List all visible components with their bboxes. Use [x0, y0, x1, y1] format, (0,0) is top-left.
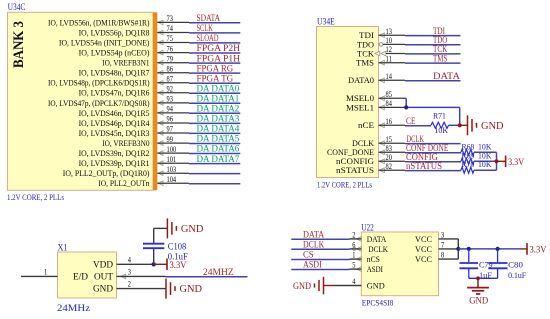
svg-text:92: 92	[167, 85, 173, 94]
wire R68 to 3.3V bus	[474, 151, 497, 153]
svg-text:83: 83	[386, 144, 392, 153]
refdes U34C	[8, 2, 26, 12]
svg-text:IO, LVDS54n (INIT_DONE): IO, LVDS54n (INIT_DONE)	[59, 38, 150, 47]
svg-text:GND: GND	[481, 121, 504, 132]
svg-text:DA DATA7: DA DATA7	[197, 154, 240, 164]
U34E pin 11 TMS	[356, 54, 405, 67]
svg-text:IO, LVDS46n, DQ1R5: IO, LVDS46n, DQ1R5	[79, 109, 150, 118]
svg-text:97: 97	[167, 125, 173, 134]
wire net CE	[405, 116, 431, 126]
wire C108 top to GND	[154, 228, 168, 243]
svg-text:ASDI: ASDI	[367, 264, 383, 274]
wire net DATA	[291, 229, 349, 239]
U34C pin 75 IO, LVDS54n (INIT_DONE)	[59, 34, 189, 47]
svg-text:84: 84	[386, 99, 393, 108]
X1 value 24MHz	[57, 303, 90, 313]
svg-text:103: 103	[167, 165, 177, 174]
wire net DCLK	[405, 134, 461, 144]
U22 pin 1 nCS	[350, 251, 380, 264]
svg-text:3: 3	[441, 231, 444, 240]
power 3.3V at X1 VDD	[154, 259, 187, 271]
wire R71 to gnd node	[449, 124, 460, 126]
svg-text:1: 1	[44, 268, 47, 277]
resistor R69 10K pullup	[461, 150, 492, 164]
ground GND at U22 pin 4	[293, 277, 334, 295]
U34E pin 83 CONF_DONE	[327, 144, 405, 157]
wire net TDI	[405, 26, 461, 36]
svg-text:nSTATUS: nSTATUS	[406, 161, 442, 171]
svg-text:U34E: U34E	[317, 16, 335, 26]
svg-text:16: 16	[386, 117, 392, 126]
svg-text:IO, LVDS39p, DQ1R1: IO, LVDS39p, DQ1R1	[79, 159, 150, 168]
wire net nSTATUS	[405, 161, 461, 171]
svg-text:FPGA RG: FPGA RG	[197, 63, 234, 73]
U34C pin 86 IO, LVDS48n, DQ1R7	[79, 64, 189, 77]
wire net DA DATA2 pin 94	[189, 104, 240, 114]
svg-text:1.2V CORE, 2 PLLs: 1.2V CORE, 2 PLLs	[317, 179, 372, 189]
U34C pin 93 IO, LVDS47p, (DPCLK7/DQS0R)	[48, 95, 189, 108]
svg-text:DA DATA0: DA DATA0	[197, 83, 240, 93]
U34C pin 99 IO, VREFB3N0	[102, 135, 189, 148]
svg-text:7: 7	[441, 241, 444, 250]
wire net DA DATA5 pin 99	[189, 134, 240, 144]
svg-text:0.1uF: 0.1uF	[508, 270, 526, 280]
U34C pin 87 IO, LVDS48p, (DPCLK6/DQS1R)	[48, 75, 189, 88]
wire R69 to 3.3V bus	[474, 160, 497, 162]
X1 pin 2 GND wire	[117, 280, 167, 289]
svg-text:10: 10	[386, 36, 392, 45]
svg-text:SLOAD: SLOAD	[197, 33, 219, 43]
wire net SLOAD pin 75	[189, 33, 240, 43]
wire net CONFIG	[405, 152, 461, 162]
BANK 3 label	[11, 21, 27, 68]
wire net TDO	[405, 35, 461, 45]
U34C pin 104 IO, PLL2_OUTn	[98, 175, 189, 188]
svg-text:73: 73	[167, 14, 173, 23]
U34C pin 103 IO, PLL2_OUTp, (DQ1R0)	[63, 165, 189, 178]
junction C79 top	[467, 247, 471, 251]
svg-text:U22: U22	[361, 222, 374, 232]
svg-text:TMS: TMS	[356, 58, 374, 68]
wire VDD node up to C108	[153, 249, 155, 264]
U34C pin 97 IO, LVDS45n, DQ1R3	[79, 125, 189, 138]
svg-text:IO, LVDS46p, DQ1R4: IO, LVDS46p, DQ1R4	[79, 119, 151, 128]
U22 pin 2 DATA	[350, 231, 387, 244]
FPGA bank part U34C	[8, 12, 158, 190]
svg-text:GND: GND	[293, 282, 311, 292]
wire net DA DATA0 pin 92	[189, 83, 240, 93]
U34E pin 10 TDO	[357, 36, 405, 49]
svg-text:nCE: nCE	[358, 120, 374, 130]
U34E pin 14 DATA0	[348, 72, 405, 85]
svg-text:C80: C80	[508, 259, 524, 269]
svg-text:IO, LVDS56p, DQ1R8: IO, LVDS56p, DQ1R8	[79, 28, 150, 37]
svg-text:IO, PLL2_OUTp, (DQ1R0): IO, PLL2_OUTp, (DQ1R0)	[63, 169, 150, 178]
junction caps gnd node	[476, 276, 480, 280]
svg-text:94: 94	[167, 105, 174, 114]
wire R70 to 3.3V bus	[474, 169, 497, 171]
svg-text:nCS: nCS	[367, 254, 380, 264]
svg-text:14: 14	[386, 72, 393, 81]
wire net SCLK pin 74	[189, 23, 240, 33]
svg-text:GND: GND	[181, 224, 204, 235]
svg-text:GND: GND	[469, 297, 488, 307]
wire net TCK	[405, 44, 461, 54]
svg-text:VCC: VCC	[415, 254, 432, 264]
svg-text:85: 85	[386, 90, 392, 99]
U22 pin 5 ASDI	[350, 261, 384, 274]
wire net 24MHZ	[166, 268, 248, 278]
wire net DA DATA6 pin 100	[189, 144, 240, 154]
svg-text:EPCS4SI8: EPCS4SI8	[362, 297, 394, 307]
svg-text:DATA0: DATA0	[348, 75, 374, 85]
svg-text:79: 79	[167, 54, 173, 63]
U22 pin 3 VCC	[415, 231, 458, 244]
U22 pin 4 GND	[334, 277, 385, 290]
svg-text:DA DATA1: DA DATA1	[197, 94, 240, 104]
svg-text:IO, PLL2_OUTn: IO, PLL2_OUTn	[98, 179, 150, 188]
svg-text:DA DATA2: DA DATA2	[197, 104, 240, 114]
U34E pin 82 nSTATUS	[336, 162, 405, 175]
svg-text:101: 101	[167, 155, 177, 164]
wire net DA DATA7 pin 101	[189, 154, 240, 164]
wire MSEL0 to MSEL1 tie	[405, 98, 460, 107]
svg-text:76: 76	[167, 44, 173, 53]
svg-text:IO, VREFB3N0: IO, VREFB3N0	[102, 139, 149, 148]
junction C80 top	[496, 247, 500, 251]
svg-text:5: 5	[352, 261, 355, 270]
power 3.3V at U22	[520, 243, 547, 255]
svg-text:10K: 10K	[478, 159, 492, 169]
U34C pin 92 IO, LVDS47n, DQ1R6	[79, 85, 189, 98]
junction X1 VDD node	[152, 262, 156, 266]
svg-text:3.3V: 3.3V	[170, 261, 187, 271]
svg-text:MSEL1: MSEL1	[346, 102, 374, 112]
svg-text:GND: GND	[180, 284, 203, 295]
power 3.3V at pullups	[497, 156, 525, 168]
svg-text:DATA: DATA	[367, 234, 387, 244]
svg-text:FPGA TG: FPGA TG	[197, 73, 234, 83]
U22 pin 8 VCC	[415, 251, 458, 264]
svg-text:DATA: DATA	[303, 229, 325, 239]
refdes X1	[58, 242, 68, 252]
svg-text:3.3V: 3.3V	[508, 158, 524, 168]
wire net unnamed pin 103	[189, 173, 240, 175]
svg-text:104: 104	[167, 175, 177, 184]
U34E pin 16 nCE	[358, 117, 405, 130]
svg-text:0.1uF: 0.1uF	[168, 251, 188, 261]
U34C note 1.2V CORE, 2 PLLs	[7, 192, 65, 202]
svg-text:2: 2	[352, 231, 355, 240]
svg-text:DATA: DATA	[433, 71, 461, 81]
X1 pin 1 E/D wire	[21, 268, 58, 277]
svg-text:DA DATA3: DA DATA3	[197, 114, 240, 124]
svg-text:100: 100	[167, 145, 177, 154]
U34C pin 76 IO, LVDS54p (nCEO)	[79, 44, 189, 57]
U34C pin 74 IO, LVDS56p, DQ1R8	[79, 24, 189, 37]
U34E pin 12 TCK	[357, 45, 405, 58]
wire net FPGA RG pin 86	[189, 63, 240, 73]
svg-text:3.3V: 3.3V	[530, 245, 547, 255]
wire net ASDI	[291, 260, 349, 270]
svg-text:DA DATA4: DA DATA4	[197, 124, 240, 134]
svg-text:11: 11	[386, 54, 392, 63]
wire net DA DATA3 pin 96	[189, 114, 240, 124]
svg-text:DCLK: DCLK	[303, 239, 325, 249]
wire net SDATA pin 73	[189, 13, 240, 23]
wire net FPGA P2H pin 76	[189, 43, 241, 53]
svg-text:SDATA: SDATA	[197, 13, 221, 23]
wire net DA DATA1 pin 93	[189, 94, 240, 104]
svg-text:E/D: E/D	[73, 271, 89, 281]
U34E pin 20 nCONFIG	[336, 153, 405, 166]
wire caps bottom tie	[469, 277, 498, 279]
junction MSEL node	[404, 105, 408, 109]
svg-text:24MHz: 24MHz	[57, 303, 90, 313]
svg-text:X1: X1	[58, 242, 68, 252]
svg-text:OUT: OUT	[94, 271, 114, 281]
svg-text:R70: R70	[462, 159, 475, 169]
refdes U22	[361, 222, 374, 232]
X1 pin 3 OUT wire	[117, 268, 166, 279]
svg-text:GND: GND	[93, 284, 114, 294]
svg-text:8: 8	[441, 251, 444, 260]
svg-text:VCC: VCC	[415, 244, 432, 254]
wire VCC rail to 3.3V	[458, 248, 520, 250]
svg-text:ASDI: ASDI	[303, 260, 322, 270]
svg-text:24MHZ: 24MHZ	[203, 268, 234, 278]
wire net FPGA P1H pin 79	[189, 53, 241, 63]
ground earth GND below caps	[467, 278, 489, 306]
svg-text:IO, LVDS47n, DQ1R6: IO, LVDS47n, DQ1R6	[79, 89, 150, 98]
capacitor C108 0.1uF	[143, 242, 188, 262]
svg-text:DCLK: DCLK	[368, 244, 388, 254]
U34E pin 13 TDI	[359, 27, 405, 40]
junction CE/R71/GND node	[458, 123, 462, 127]
FPGA config/JTAG part U34E	[317, 27, 379, 178]
svg-text:86: 86	[167, 64, 173, 73]
svg-text:82: 82	[386, 162, 392, 171]
U34C pin 73 IO, LVDS56n, (DM1R/BWS#1R)	[48, 14, 189, 27]
resistor R68 10K pullup	[461, 141, 492, 155]
svg-text:2: 2	[128, 280, 131, 289]
svg-text:10K: 10K	[435, 125, 449, 135]
svg-text:74: 74	[167, 24, 174, 33]
wire MSEL down to CE node	[459, 107, 461, 125]
wire net DCLK	[291, 239, 349, 249]
ground GND at X1 pin 2	[166, 279, 202, 299]
wire net unnamed pin 104	[189, 183, 240, 185]
U34C pin 96 IO, LVDS46p, DQ1R4	[79, 115, 189, 128]
svg-text:IO, LVDS45n, DQ1R3: IO, LVDS45n, DQ1R3	[79, 129, 150, 138]
svg-text:93: 93	[167, 95, 173, 104]
wire net FPGA TG pin 87	[189, 73, 240, 83]
svg-text:96: 96	[167, 115, 173, 124]
U34C pin 94 IO, LVDS46n, DQ1R5	[79, 105, 189, 118]
capacitor C80 0.1uF	[488, 249, 526, 280]
wire VCC tie vertical	[457, 239, 459, 259]
svg-text:IO, LVDS56n, (DM1R/BWS#1R): IO, LVDS56n, (DM1R/BWS#1R)	[48, 18, 150, 27]
wire net DA DATA4 pin 97	[189, 124, 240, 134]
svg-text:GND: GND	[367, 280, 385, 290]
wire pullup 3.3V bus vertical	[496, 152, 498, 170]
svg-text:87: 87	[167, 75, 173, 84]
U34E pin 15 DCLK	[352, 135, 405, 148]
svg-text:FPGA P1H: FPGA P1H	[197, 53, 241, 63]
wire net CONF DONE	[405, 143, 461, 153]
U34E note 1.2V CORE, 2 PLLs	[317, 179, 372, 189]
wire net CS	[291, 250, 349, 260]
svg-text:IO, LVDS54p (nCEO): IO, LVDS54p (nCEO)	[79, 49, 150, 58]
resistor R71 10K	[431, 111, 449, 135]
svg-text:1.2V CORE, 2 PLLs: 1.2V CORE, 2 PLLs	[7, 192, 65, 202]
wire net TMS	[405, 53, 461, 63]
svg-text:IO, LVDS39n, DQ1R2: IO, LVDS39n, DQ1R2	[79, 149, 150, 158]
svg-text:6: 6	[352, 241, 355, 250]
U34C pin 101 IO, LVDS39p, DQ1R1	[79, 155, 189, 168]
X1 pin names	[73, 259, 114, 293]
oscillator X1 24MHz	[58, 252, 117, 298]
U34E pin 85 MSEL0	[346, 90, 405, 103]
svg-text:DA DATA5: DA DATA5	[197, 134, 240, 144]
svg-text:1: 1	[352, 251, 355, 260]
svg-text:R71: R71	[433, 111, 446, 121]
svg-text:75: 75	[167, 34, 173, 43]
svg-text:20: 20	[386, 153, 392, 162]
svg-text:FPGA P2H: FPGA P2H	[197, 43, 241, 53]
svg-text:12: 12	[386, 45, 392, 54]
svg-text:IO, VREFB3N1: IO, VREFB3N1	[102, 59, 149, 68]
X1 pin 4 VDD wire	[117, 255, 154, 264]
svg-text:VCC: VCC	[415, 234, 432, 244]
svg-text:3: 3	[128, 268, 131, 277]
svg-text:BANK 3: BANK 3	[11, 21, 27, 68]
resistor R70 10K pullup	[461, 159, 492, 173]
svg-text:13: 13	[386, 27, 392, 36]
svg-text:TMS: TMS	[433, 53, 447, 63]
U22 pin 7 VCC	[415, 241, 458, 254]
svg-text:IO, LVDS48p, (DPCLK6/DQS1R): IO, LVDS48p, (DPCLK6/DQS1R)	[48, 79, 150, 88]
svg-text:IO, LVDS47p, (DPCLK7/DQS0R): IO, LVDS47p, (DPCLK7/DQS0R)	[48, 99, 150, 108]
junction pullup bus node	[494, 159, 498, 163]
U34C pin 100 IO, LVDS39n, DQ1R2	[79, 145, 189, 158]
svg-text:CE: CE	[406, 116, 416, 126]
svg-text:nSTATUS: nSTATUS	[336, 165, 374, 175]
svg-text:15: 15	[386, 135, 392, 144]
svg-text:C108: C108	[168, 242, 187, 252]
U34E pin 84 MSEL1	[346, 99, 405, 112]
refdes U34E	[317, 16, 335, 26]
svg-text:SCLK: SCLK	[197, 23, 214, 33]
U22 pin 6 DCLK	[350, 241, 389, 254]
svg-text:CS: CS	[303, 250, 314, 260]
serial flash U22 EPCS4SI8	[361, 232, 438, 296]
U34C pin 79 IO, VREFB3N1	[102, 54, 189, 67]
svg-text:VDD: VDD	[93, 259, 114, 269]
capacitor C79 1uF	[460, 249, 494, 280]
svg-text:DA DATA6: DA DATA6	[197, 144, 240, 154]
junction VCC node	[456, 247, 460, 251]
ground GND above C108	[167, 218, 203, 238]
ground GND at R71	[460, 115, 504, 135]
U22 value EPCS4SI8	[362, 297, 394, 307]
wire net DATA	[405, 71, 461, 81]
svg-text:U34C: U34C	[8, 2, 26, 12]
svg-text:99: 99	[167, 135, 173, 144]
svg-text:IO, LVDS48n, DQ1R7: IO, LVDS48n, DQ1R7	[79, 69, 150, 78]
